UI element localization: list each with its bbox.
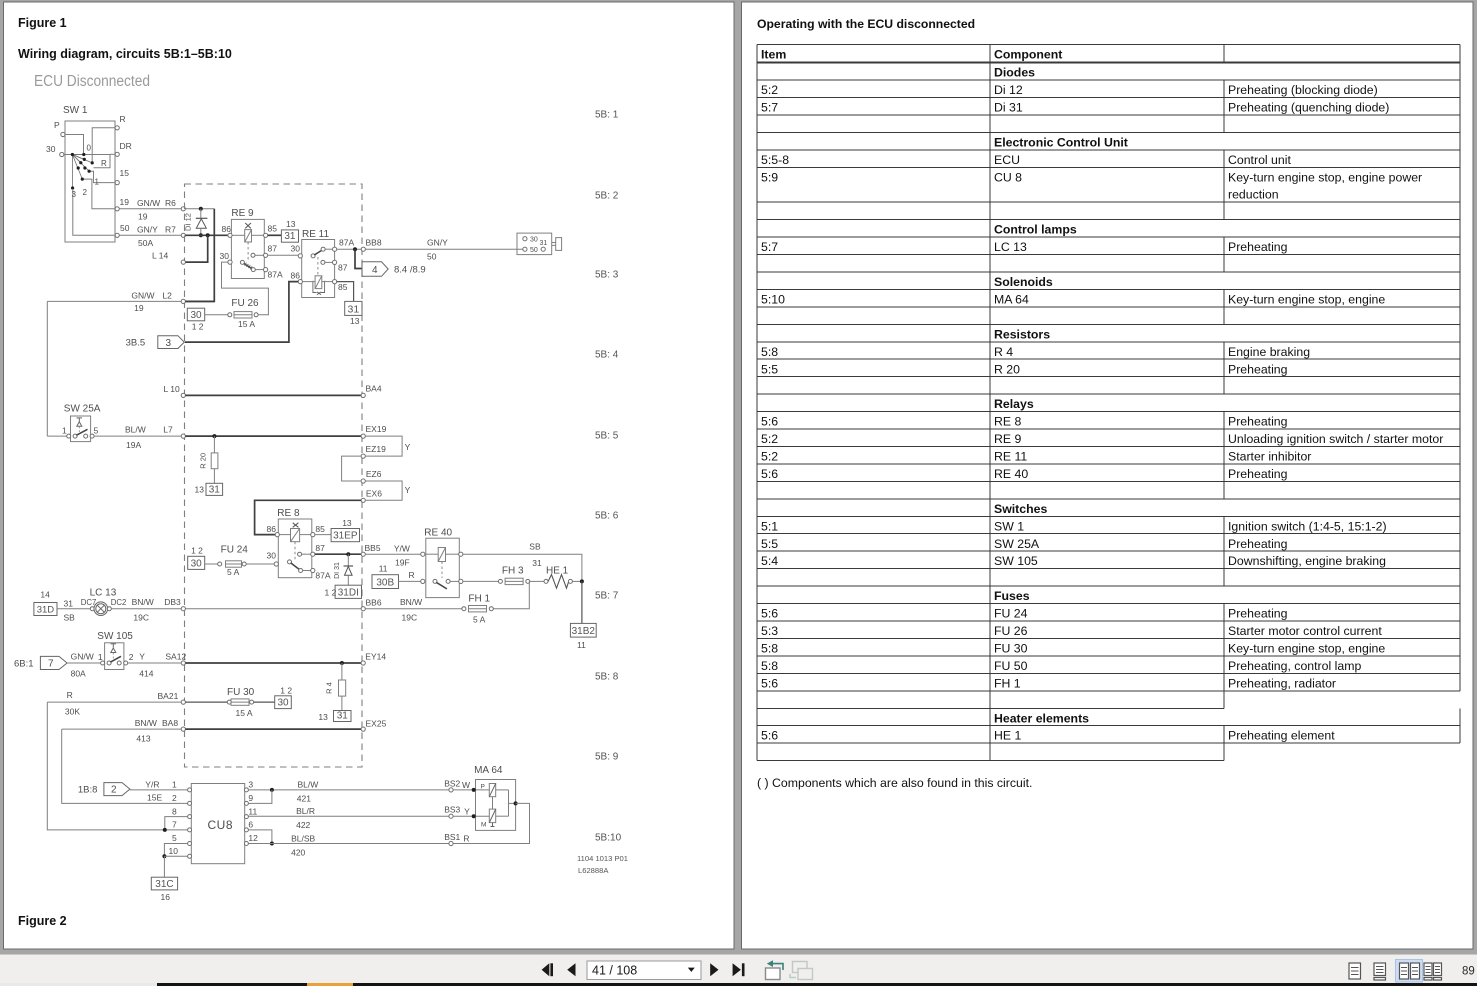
- svg-text:5B: 3: 5B: 3: [595, 270, 619, 281]
- RE 11 terminal 30: [298, 254, 302, 258]
- node EZ6: [361, 479, 365, 483]
- svg-text:5:10: 5:10: [761, 292, 785, 306]
- wire FH 1 up to HE 1 node: [493, 581, 529, 608]
- svg-text:5B: 1: 5B: 1: [595, 110, 619, 121]
- junction Di12 on R7 wire: [199, 233, 203, 237]
- svg-text:BA4: BA4: [366, 384, 382, 394]
- wire Y/R 15E to CU8 pin 1: [130, 789, 188, 791]
- svg-text:DR: DR: [120, 141, 132, 151]
- node L14 at ECU boundary: [181, 260, 185, 264]
- wire R6 down to L2 (thick): [185, 209, 214, 302]
- RE 8 terminal 87A: [311, 568, 315, 572]
- junction pin6/pin12: [270, 842, 274, 846]
- svg-text:5B: 5: 5B: 5: [595, 431, 619, 442]
- RE 40 switch terminal: [421, 579, 425, 583]
- svg-text:Y/W: Y/W: [394, 544, 410, 554]
- RE 11 terminal 86: [298, 280, 302, 284]
- RE 9 terminal 85: [252, 234, 264, 236]
- svg-text:50A: 50A: [138, 238, 153, 248]
- svg-text:Preheating: Preheating: [1228, 607, 1288, 621]
- svg-text:BL/R: BL/R: [296, 806, 315, 816]
- svg-text:RE 9: RE 9: [994, 432, 1021, 446]
- svg-text:DI 31: DI 31: [334, 562, 341, 579]
- node EY14 at ECU boundary: [361, 661, 365, 665]
- svg-text:SA12: SA12: [165, 652, 186, 662]
- svg-text:5B: 4: 5B: 4: [595, 350, 619, 361]
- svg-text:FU 24: FU 24: [221, 545, 249, 556]
- wire RE9 85 to ground 31 (thick): [268, 234, 282, 236]
- relay RE 40 body: [426, 538, 460, 597]
- svg-text:Di 31: Di 31: [994, 101, 1023, 115]
- ground 31 (13) at RE 9: [281, 230, 298, 242]
- switch SW 105 body: [105, 643, 124, 670]
- svg-text:Switches: Switches: [994, 502, 1047, 516]
- svg-text:L62888A: L62888A: [578, 866, 609, 875]
- svg-text:19C: 19C: [133, 613, 149, 623]
- node R6 at ECU boundary: [181, 207, 185, 211]
- svg-text:Figure 2: Figure 2: [18, 914, 67, 928]
- wire R6 to junction: [185, 208, 214, 210]
- svg-text:HE 1: HE 1: [546, 566, 569, 577]
- wire RE9 30 to FU 26: [222, 262, 269, 315]
- svg-text:R: R: [463, 834, 469, 844]
- svg-text:BS2: BS2: [444, 779, 460, 789]
- svg-text:Preheating element: Preheating element: [1228, 729, 1335, 743]
- RE 9 terminal 87: [251, 253, 255, 257]
- svg-text:31DI: 31DI: [338, 587, 359, 598]
- svg-text:RE 11: RE 11: [302, 229, 329, 240]
- svg-text:19F: 19F: [395, 558, 410, 568]
- next view button (disabled): [793, 962, 808, 973]
- svg-text:Preheating: Preheating: [1228, 240, 1288, 254]
- svg-text:87: 87: [268, 244, 278, 254]
- terminal 30 box (12): [187, 308, 204, 321]
- svg-text:2: 2: [83, 188, 88, 197]
- SW 1 terminal R: [115, 126, 119, 130]
- svg-text:30B: 30B: [376, 578, 394, 589]
- RE 11 terminal 87: [321, 260, 325, 264]
- RE 8 terminal 30: [274, 562, 278, 566]
- svg-text:0: 0: [87, 144, 92, 153]
- svg-text:7: 7: [48, 659, 54, 670]
- wire R 30K to BA21: [47, 701, 181, 703]
- svg-text:5:5-8: 5:5-8: [761, 153, 789, 167]
- svg-text:87A: 87A: [315, 571, 330, 581]
- svg-text:30K: 30K: [65, 707, 80, 717]
- svg-text:5B: 6: 5B: 6: [595, 511, 619, 522]
- ground 31 (13) under R 20: [206, 483, 223, 495]
- CU8 pin 10: [188, 854, 192, 858]
- svg-text:3B.5: 3B.5: [126, 338, 146, 349]
- ground 31EP (13): [331, 529, 359, 542]
- ground 31 (13) at RE 11: [345, 301, 362, 315]
- svg-text:5:7: 5:7: [761, 240, 778, 254]
- svg-text:5:6: 5:6: [761, 467, 778, 481]
- svg-text:50: 50: [427, 252, 437, 262]
- SW 1 terminal 30: [60, 152, 64, 156]
- connector pin 31: [541, 247, 545, 251]
- svg-text:5 A: 5 A: [473, 615, 486, 625]
- connector block 30-50-31: [517, 233, 552, 255]
- svg-text:Preheating, radiator: Preheating, radiator: [1228, 676, 1336, 690]
- wire RE8 85 to ground 31EP: [315, 534, 331, 536]
- RE 8 terminal 86: [275, 533, 279, 537]
- node R7 at ECU boundary: [181, 233, 185, 237]
- svg-text:RE 40: RE 40: [994, 467, 1028, 481]
- svg-text:Unloading ignition switch / st: Unloading ignition switch / starter moto…: [1228, 432, 1443, 446]
- svg-text:Figure 1: Figure 1: [18, 16, 67, 30]
- svg-text:8: 8: [172, 806, 177, 816]
- link EZ19 to EZ6 inside: [342, 456, 362, 481]
- svg-text:R 4: R 4: [325, 682, 334, 694]
- svg-text:31: 31: [284, 231, 296, 242]
- svg-text:Y: Y: [139, 652, 145, 662]
- svg-text:Preheating (quenching diode): Preheating (quenching diode): [1228, 101, 1389, 115]
- svg-text:FH 3: FH 3: [502, 566, 524, 577]
- svg-text:BN/W: BN/W: [132, 597, 154, 607]
- svg-text:DC7: DC7: [81, 598, 97, 607]
- svg-text:31: 31: [64, 599, 74, 609]
- svg-text:Preheating: Preheating: [1228, 362, 1288, 376]
- SW 1 contact dots: [71, 153, 74, 156]
- MA 64 winding link: [492, 797, 494, 809]
- right page (table): [742, 2, 1474, 949]
- wire BL/W 421 pin3 to MA64 BS2: [249, 789, 449, 791]
- connector pin 30: [523, 237, 527, 241]
- svg-text:W: W: [462, 780, 470, 790]
- CU8 pin 7: [188, 828, 192, 832]
- svg-text:19: 19: [120, 197, 130, 207]
- svg-text:GN/Y: GN/Y: [137, 225, 158, 235]
- svg-text:31B2: 31B2: [572, 626, 596, 637]
- svg-text:reduction: reduction: [1228, 187, 1279, 201]
- svg-text:4: 4: [372, 265, 378, 276]
- svg-text:Ignition switch (1:4-5, 15:1-2: Ignition switch (1:4-5, 15:1-2): [1228, 519, 1387, 533]
- MA 64 terminal BS1: [449, 841, 453, 845]
- svg-text:Item: Item: [761, 47, 786, 61]
- page number combo box: [587, 961, 701, 980]
- svg-text:31: 31: [209, 484, 221, 495]
- svg-text:Starter motor control current: Starter motor control current: [1228, 624, 1382, 638]
- relay RE 8 body: [278, 519, 312, 578]
- svg-text:GN/W: GN/W: [131, 291, 154, 301]
- svg-text:11: 11: [248, 806, 257, 816]
- svg-text:31: 31: [348, 303, 360, 315]
- link EZ6 to EX6 outside: [365, 481, 402, 500]
- svg-text:LC 13: LC 13: [90, 588, 117, 599]
- svg-text:Diodes: Diodes: [994, 66, 1035, 80]
- wire pin 8 to pin 7 junction: [165, 817, 188, 830]
- two page continuous view button: [1424, 963, 1432, 976]
- node EX19 at ECU boundary: [361, 434, 365, 438]
- svg-text:DI 12: DI 12: [184, 213, 193, 231]
- svg-text:1: 1: [95, 178, 100, 187]
- svg-text:5:3: 5:3: [761, 624, 778, 638]
- SW 1 internal wire from 50: [73, 190, 115, 235]
- svg-text:HE 1: HE 1: [994, 729, 1021, 743]
- svg-text:L7: L7: [163, 425, 173, 435]
- svg-text:13: 13: [318, 712, 328, 722]
- node BA21 at ECU boundary: [181, 700, 185, 704]
- svg-text:5:8: 5:8: [761, 345, 778, 359]
- svg-text:( ) Components which are also: ( ) Components which are also found in t…: [757, 776, 1032, 790]
- wire BB5 Y/W 19F to RE 40: [365, 553, 420, 555]
- wire RE11 87A to BB8: [337, 248, 361, 250]
- svg-text:30: 30: [530, 237, 538, 244]
- svg-text:CU8: CU8: [208, 818, 234, 832]
- svg-text:5:6: 5:6: [761, 415, 778, 429]
- SW 1 internal wire 30 line: [64, 154, 110, 156]
- wire L10 to BA4 (thick): [185, 394, 361, 396]
- svg-text:1: 1: [98, 652, 103, 662]
- svg-text:80A: 80A: [71, 669, 86, 679]
- svg-text:SB: SB: [64, 613, 76, 623]
- resistor R 4: [341, 663, 343, 680]
- RE 9 terminal 86: [228, 233, 232, 237]
- last page button: [733, 963, 741, 976]
- svg-text:1B:8: 1B:8: [78, 785, 98, 796]
- wire 50 GN/Y R7: [119, 234, 181, 236]
- svg-text:CU 8: CU 8: [994, 170, 1022, 184]
- junction pin10 to ground: [162, 854, 166, 858]
- wire pin6 to pin12 junction: [249, 830, 272, 844]
- svg-text:86: 86: [222, 224, 232, 234]
- svg-text:3: 3: [248, 780, 253, 790]
- wire 31D to LC 13: [57, 608, 90, 610]
- RE 11 coil: [315, 276, 322, 289]
- RE 40 switch arm: [433, 579, 437, 583]
- CU8 pin 3: [244, 788, 248, 792]
- SW 1 internal wire from 15: [89, 171, 115, 182]
- wire BN/W 413 to BA8: [62, 728, 182, 730]
- svg-text:5:5: 5:5: [761, 362, 778, 376]
- svg-text:5:2: 5:2: [761, 83, 778, 97]
- svg-text:GN/Y: GN/Y: [427, 238, 448, 248]
- node SA12 at ECU boundary: [181, 661, 185, 665]
- fuse FU 26: [228, 313, 232, 317]
- svg-text:M: M: [481, 822, 486, 829]
- svg-text:EZ6: EZ6: [366, 469, 382, 479]
- SW 25A terminals: [67, 434, 71, 438]
- svg-text:Relays: Relays: [994, 397, 1034, 411]
- svg-text:85: 85: [338, 282, 348, 292]
- svg-text:15: 15: [120, 168, 130, 178]
- RE 11 terminal 85: [322, 281, 333, 283]
- svg-text:Di 12: Di 12: [994, 83, 1023, 97]
- svg-text:SW 25A: SW 25A: [64, 404, 101, 415]
- svg-text:5:6: 5:6: [761, 676, 778, 690]
- wire BA21 to FU 30: [185, 701, 227, 703]
- wire BN/W 19C to DB3: [111, 608, 181, 610]
- RE 9 terminal 87A: [264, 268, 268, 272]
- svg-text:R: R: [409, 570, 415, 580]
- SW 1 terminal P: [61, 132, 65, 136]
- svg-text:1 2: 1 2: [280, 686, 292, 696]
- svg-text:L 10: L 10: [164, 384, 181, 394]
- wire 87A down to off-page arrow 4 (thick): [355, 249, 362, 268]
- svg-text:Solenoids: Solenoids: [994, 275, 1053, 289]
- SW 1 terminal DR: [115, 152, 119, 156]
- svg-text:FU 24: FU 24: [994, 607, 1028, 621]
- svg-text:50: 50: [530, 247, 538, 254]
- svg-text:R: R: [67, 690, 73, 700]
- svg-text:5:7: 5:7: [761, 101, 778, 115]
- wire DB3 to BB6 through ECU: [185, 608, 361, 610]
- left trunk down to CU8 pin 2: [62, 729, 188, 803]
- svg-text:Preheating, control lamp: Preheating, control lamp: [1228, 659, 1361, 673]
- svg-text:31EP: 31EP: [333, 531, 358, 542]
- svg-text:5B: 9: 5B: 9: [595, 752, 619, 763]
- off-page arrow 4 to 8.4/8.9: [362, 262, 388, 277]
- svg-text:2: 2: [129, 652, 134, 662]
- svg-text:41 / 108: 41 / 108: [592, 964, 637, 978]
- svg-text:MA 64: MA 64: [994, 292, 1029, 306]
- svg-text:31D: 31D: [37, 605, 55, 616]
- svg-text:19: 19: [138, 212, 148, 222]
- node L7 at ECU boundary: [181, 434, 185, 438]
- svg-text:Key-turn engine stop, engine p: Key-turn engine stop, engine power: [1228, 170, 1422, 184]
- svg-text:31: 31: [337, 711, 349, 722]
- SW 1 internal step to contact row: [94, 155, 111, 168]
- CU8 pin 1: [188, 788, 192, 792]
- svg-text:BB8: BB8: [366, 238, 382, 248]
- ground 31B2 (11): [570, 623, 596, 637]
- svg-text:EX19: EX19: [366, 424, 387, 434]
- svg-text:Key-turn engine stop, engine: Key-turn engine stop, engine: [1228, 641, 1385, 655]
- svg-text:GN/W: GN/W: [137, 198, 160, 208]
- svg-text:FU 30: FU 30: [994, 641, 1028, 655]
- svg-text:SW 25A: SW 25A: [994, 537, 1040, 551]
- svg-text:EX25: EX25: [366, 719, 387, 729]
- solenoid MA 64 body: [476, 780, 516, 831]
- svg-text:30: 30: [46, 144, 56, 154]
- node EZ19: [361, 454, 365, 458]
- RE 40 coil dashed link: [441, 562, 443, 579]
- svg-text:SW 105: SW 105: [994, 554, 1038, 568]
- fuse FU 24: [218, 562, 222, 566]
- svg-text:6B:1: 6B:1: [14, 659, 34, 670]
- svg-text:13: 13: [342, 518, 352, 528]
- svg-text:ECU Disconnected: ECU Disconnected: [34, 73, 150, 90]
- CU8 pin 12: [244, 842, 248, 846]
- wire Y 414 to SA12: [128, 662, 181, 664]
- svg-text:Y: Y: [405, 442, 411, 452]
- node BA4 at ECU boundary: [361, 393, 365, 397]
- wire RE11 85 to ground 31: [337, 282, 354, 302]
- ground 31 (13) under R 4: [334, 711, 352, 722]
- taskbar strip: [0, 983, 157, 986]
- SW 25A switch arm: [76, 429, 87, 435]
- svg-text:1 2: 1 2: [192, 322, 204, 332]
- first page button: [542, 963, 550, 976]
- continuous view button: [1374, 963, 1386, 976]
- svg-text:1: 1: [172, 780, 177, 790]
- wire RE8 87 to BB5 (thick): [315, 553, 361, 555]
- svg-text:BA21: BA21: [158, 691, 179, 701]
- svg-text:BS3: BS3: [444, 805, 460, 815]
- next page button: [710, 963, 718, 976]
- ECU connector dashed boundary: [185, 184, 363, 767]
- svg-text:10: 10: [169, 846, 179, 856]
- ground 31C (16): [151, 877, 177, 890]
- svg-text:5B: 7: 5B: 7: [595, 591, 619, 602]
- svg-text:MA 64: MA 64: [474, 765, 503, 776]
- svg-text:Downshifting, engine braking: Downshifting, engine braking: [1228, 554, 1386, 568]
- junction pin3/pin9: [270, 788, 274, 792]
- svg-text:85: 85: [268, 224, 278, 234]
- single page view button: [1349, 963, 1361, 979]
- SW 1 internal wire from P: [65, 135, 84, 155]
- svg-text:5:1: 5:1: [761, 519, 778, 533]
- CU8 pin 8: [188, 815, 192, 819]
- junction on 87A wire: [353, 247, 357, 251]
- svg-text:LC 13: LC 13: [994, 240, 1027, 254]
- svg-text:P: P: [54, 120, 60, 130]
- connector terminal stud: [552, 242, 556, 244]
- relay RE 11 body: [302, 240, 335, 298]
- node BB6 at ECU boundary: [361, 607, 365, 611]
- SW 1 internal wire from R: [92, 128, 115, 163]
- wire 30B to RE 40: [399, 580, 421, 582]
- diode Di 12: [200, 209, 202, 219]
- svg-text:87: 87: [315, 543, 325, 553]
- svg-text:5B:10: 5B:10: [595, 833, 622, 844]
- svg-text:5:9: 5:9: [761, 170, 778, 184]
- svg-text:89: 89: [1462, 966, 1475, 978]
- RE 8 coil: [291, 529, 300, 542]
- connector pin 50: [523, 247, 527, 251]
- svg-text:ECU: ECU: [994, 153, 1020, 167]
- svg-text:86: 86: [291, 271, 301, 281]
- svg-text:19A: 19A: [126, 440, 141, 450]
- svg-text:R: R: [101, 159, 107, 168]
- svg-text:P: P: [481, 784, 485, 791]
- SW 25A pressure symbol: [77, 417, 83, 419]
- svg-text:87A: 87A: [339, 238, 354, 248]
- svg-text:13: 13: [286, 219, 296, 229]
- svg-text:15E: 15E: [147, 793, 162, 803]
- RE 8 terminal 85: [300, 534, 311, 536]
- RE 8 switch arm: [288, 560, 292, 564]
- RE 9 terminal 30: [228, 260, 232, 264]
- CU8 pin 11: [244, 815, 248, 819]
- switch SW 1 body: [65, 121, 115, 242]
- svg-text:421: 421: [297, 794, 311, 804]
- svg-text:9: 9: [248, 793, 253, 803]
- wire MA64 common to BS1: [453, 803, 529, 843]
- svg-text:5:5: 5:5: [761, 537, 778, 551]
- svg-text:13: 13: [350, 316, 360, 326]
- svg-text:5B: 2: 5B: 2: [595, 191, 619, 202]
- control unit CU 8 body: [191, 784, 244, 864]
- RE 40 coil to right side: [446, 553, 459, 555]
- wire pin 5 to pin 10 junction: [164, 844, 187, 857]
- RE 8 coil dashed link: [294, 542, 296, 560]
- wire BA8 to EX25 (thick): [185, 728, 361, 730]
- svg-text:13: 13: [195, 485, 205, 495]
- wire RE 40 to FH 3: [463, 580, 498, 582]
- svg-text:11: 11: [379, 564, 388, 574]
- svg-text:413: 413: [136, 734, 150, 744]
- svg-text:8.4 /8.9: 8.4 /8.9: [394, 265, 426, 276]
- RE 11 terminal 87A: [333, 247, 337, 251]
- MA 64 terminal BS2: [449, 788, 453, 792]
- svg-text:Engine braking: Engine braking: [1228, 345, 1310, 359]
- svg-text:30: 30: [190, 310, 202, 321]
- wire EX6 to RE 8 86 (thick): [255, 500, 362, 534]
- svg-text:1 2: 1 2: [325, 588, 337, 598]
- svg-text:15 A: 15 A: [238, 319, 255, 329]
